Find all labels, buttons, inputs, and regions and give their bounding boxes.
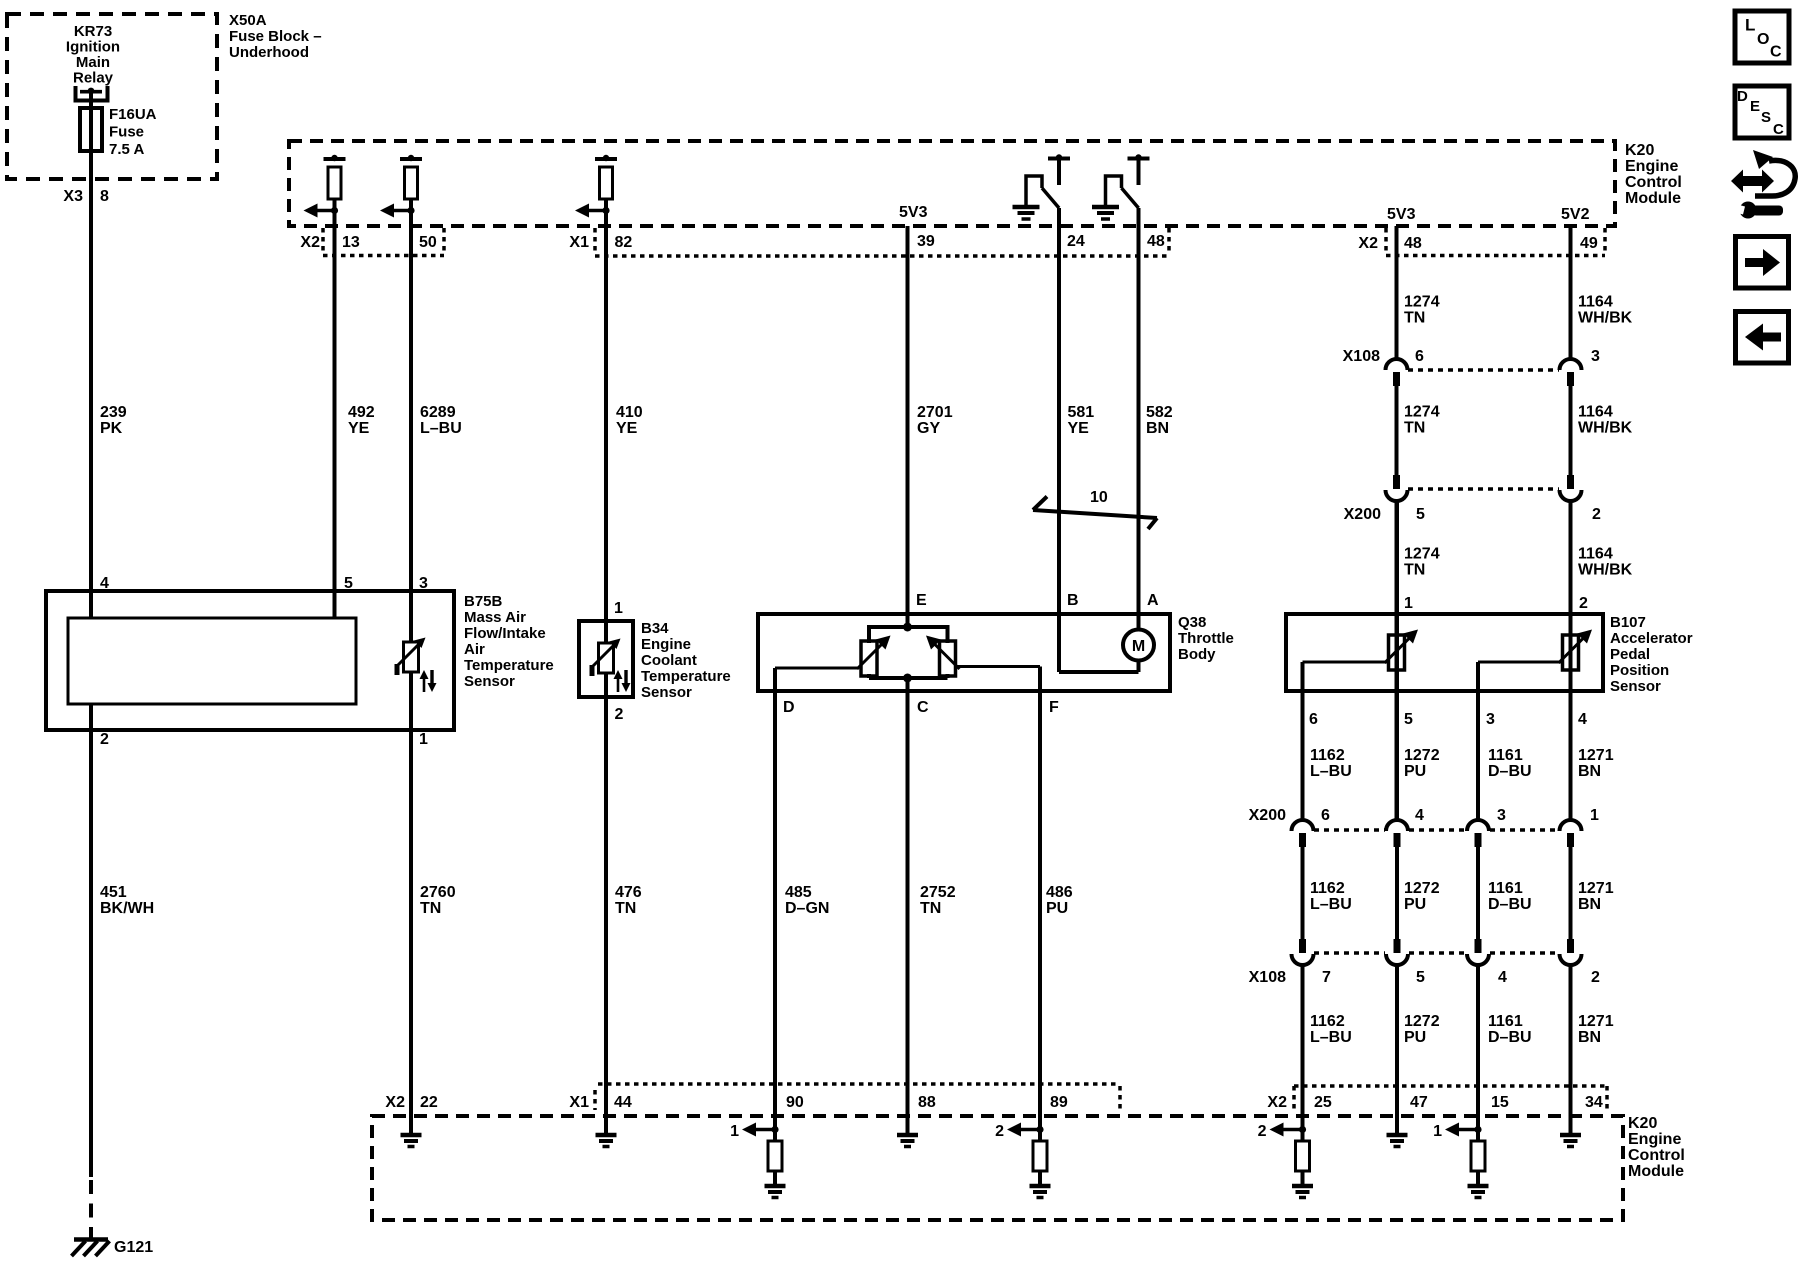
- wire B107 to X200 (1162 L-BU): [1301, 662, 1305, 820]
- svg-text:K20: K20: [1628, 1115, 1657, 1132]
- svg-text:6: 6: [1321, 807, 1330, 824]
- wire ECM pin 39 to throttle pin E (circuit 2701 GY): [906, 226, 910, 627]
- svg-text:Engine: Engine: [1625, 158, 1678, 175]
- connector X200 female half lower x=1570.5: [1560, 820, 1582, 831]
- connector X108 female half on wire x=1570.5: [1560, 359, 1582, 370]
- svg-text:2701: 2701: [917, 404, 953, 421]
- wire X200 to APP sensor (5V3/1274 TN): [1395, 501, 1399, 820]
- transistor low-side driver at ECM pin 48: [1128, 157, 1150, 161]
- wire KR73 relay to fuse to MAF pin 4 (circuit 239 PK): [89, 89, 93, 618]
- svg-text:S: S: [1761, 109, 1771, 126]
- wire ECM to X108 (5V3/1274 TN): [1395, 226, 1399, 358]
- sensor B75B inner element box: [68, 618, 356, 704]
- svg-text:1162: 1162: [1310, 880, 1345, 897]
- svg-text:TN: TN: [1404, 562, 1425, 579]
- wire X200 to X108 (1161 D-BU): [1476, 847, 1480, 940]
- svg-text:1: 1: [730, 1123, 739, 1140]
- svg-text:1164: 1164: [1578, 404, 1613, 421]
- svg-text:1274: 1274: [1404, 404, 1440, 421]
- ground G121 chassis symbol: [74, 1237, 108, 1242]
- svg-text:Body: Body: [1178, 646, 1216, 663]
- wire X108 to ECM (1162 L-BU): [1301, 965, 1305, 1141]
- svg-text:5: 5: [344, 575, 353, 592]
- svg-text:2760: 2760: [420, 884, 456, 901]
- svg-text:3: 3: [1497, 807, 1506, 824]
- svg-text:7.5 A: 7.5 A: [109, 141, 144, 158]
- connector X200 female half on wire x=1396.5: [1386, 490, 1408, 501]
- svg-text:48: 48: [1404, 235, 1422, 252]
- svg-text:Underhood: Underhood: [229, 44, 309, 61]
- svg-text:YE: YE: [616, 420, 638, 437]
- svg-text:3: 3: [419, 575, 428, 592]
- resistor pull-up at ECM pin 82: [595, 157, 617, 161]
- wire ECM pin 48 to throttle pin A (circuit 582 BN): [1137, 208, 1141, 630]
- svg-text:X200: X200: [1249, 807, 1286, 824]
- svg-text:8: 8: [100, 188, 109, 205]
- svg-text:10: 10: [1090, 489, 1108, 506]
- svg-text:L–BU: L–BU: [1310, 896, 1352, 913]
- svg-text:D–GN: D–GN: [785, 900, 829, 917]
- wire B75B pin 1 to ECM pin 22 (circuit 2760 TN): [409, 672, 413, 1133]
- svg-text:1272: 1272: [1404, 880, 1440, 897]
- svg-text:1164: 1164: [1578, 546, 1613, 563]
- svg-text:47: 47: [1410, 1094, 1428, 1111]
- svg-text:E: E: [916, 592, 927, 609]
- wire TPS2 wiper to pin F: [957, 665, 1040, 668]
- svg-text:D–BU: D–BU: [1488, 896, 1532, 913]
- svg-text:6: 6: [1415, 348, 1424, 365]
- ground at ECM pin 34: [1560, 1133, 1581, 1138]
- svg-text:34: 34: [1585, 1094, 1603, 1111]
- svg-text:22: 22: [420, 1094, 438, 1111]
- temperature arrows inside B75B: [423, 677, 426, 692]
- svg-text:Control: Control: [1628, 1147, 1685, 1164]
- svg-text:6289: 6289: [420, 404, 456, 421]
- svg-text:48: 48: [1147, 233, 1165, 250]
- connector X108 male pin on wire x=1570.5: [1567, 372, 1574, 386]
- wire B107 to X200 (1161 D-BU): [1476, 662, 1480, 820]
- ground at ECM pin 88: [897, 1133, 918, 1138]
- wire B34 pin 2 to ECM pin 44 (circuit 476 TN): [604, 672, 608, 1133]
- svg-text:O: O: [1757, 31, 1769, 48]
- connector X200 male pin lower x=1302.5: [1299, 833, 1306, 847]
- connector X200 dashed link row 2: [1314, 828, 1385, 832]
- svg-text:581: 581: [1068, 404, 1095, 421]
- svg-text:2752: 2752: [920, 884, 956, 901]
- svg-text:E: E: [1750, 98, 1760, 115]
- svg-text:Position: Position: [1610, 662, 1669, 679]
- svg-text:476: 476: [615, 884, 642, 901]
- wire ECM pin 13 to MAF pin 5 (circuit 492 YE): [333, 199, 337, 618]
- connector X1 box at ECM (pins 82, 39, 24, 48): [593, 228, 597, 252]
- svg-text:BN: BN: [1146, 420, 1169, 437]
- svg-text:Temperature: Temperature: [464, 657, 554, 674]
- svg-text:90: 90: [786, 1094, 804, 1111]
- svg-text:582: 582: [1146, 404, 1173, 421]
- svg-text:D: D: [783, 699, 795, 716]
- svg-text:Engine: Engine: [1628, 1131, 1681, 1148]
- svg-text:1271: 1271: [1578, 880, 1614, 897]
- svg-text:1274: 1274: [1404, 294, 1440, 311]
- connector X108 female half lower x=1570.5: [1560, 954, 1582, 965]
- svg-text:BK/WH: BK/WH: [100, 900, 154, 917]
- svg-text:4: 4: [100, 575, 109, 592]
- svg-text:4: 4: [1578, 711, 1587, 728]
- resistor and ground at ECM pin 25 (node 2): [1299, 1126, 1306, 1133]
- svg-text:5: 5: [1416, 506, 1425, 523]
- svg-text:Sensor: Sensor: [464, 673, 515, 690]
- svg-text:13: 13: [342, 234, 360, 251]
- svg-text:X108: X108: [1343, 348, 1380, 365]
- svg-text:X108: X108: [1249, 969, 1286, 986]
- svg-text:2: 2: [1258, 1123, 1267, 1140]
- svg-text:486: 486: [1046, 884, 1073, 901]
- svg-text:Main: Main: [76, 54, 110, 71]
- connector X200 female half lower x=1478: [1467, 820, 1489, 831]
- icon DESC box: [1735, 86, 1789, 138]
- wire ECM pin 82 to ECT pin 1 (circuit 410 YE): [604, 199, 608, 643]
- wire ECM pin 24 to throttle pin B (circuit 581 YE): [1057, 208, 1061, 672]
- svg-text:X3: X3: [63, 188, 83, 205]
- svg-text:Air: Air: [464, 641, 485, 658]
- connector X108 male pin lower x=1478: [1475, 939, 1482, 953]
- ECM K20 bottom dashed box: [372, 1116, 1623, 1220]
- temperature arrows inside B34: [617, 677, 620, 692]
- svg-text:M: M: [1132, 638, 1145, 655]
- sensor B34 box: [579, 621, 633, 697]
- connector X108 male pin lower x=1397: [1394, 939, 1401, 953]
- wire B107 to X200 (1271 BN): [1569, 501, 1573, 820]
- potentiometer TPS2: [940, 641, 956, 676]
- svg-text:X2: X2: [1358, 235, 1378, 252]
- svg-text:2: 2: [1592, 506, 1601, 523]
- wire TPS2 top stub: [946, 625, 950, 643]
- connector X200 dashed link row 1: [1408, 487, 1559, 491]
- icon prev-page arrow box: [1736, 312, 1789, 364]
- svg-text:X2: X2: [300, 234, 320, 251]
- svg-text:TN: TN: [420, 900, 441, 917]
- svg-text:88: 88: [918, 1094, 936, 1111]
- sensor B75B outer box: [46, 591, 454, 730]
- connector X108 dashed link row 2: [1314, 951, 1385, 955]
- svg-text:1164: 1164: [1578, 294, 1613, 311]
- svg-text:G121: G121: [114, 1239, 153, 1256]
- svg-text:5: 5: [1404, 711, 1413, 728]
- svg-text:WH/BK: WH/BK: [1578, 310, 1633, 327]
- svg-text:15: 15: [1491, 1094, 1509, 1111]
- svg-text:TN: TN: [615, 900, 636, 917]
- svg-text:49: 49: [1580, 235, 1598, 252]
- svg-text:B: B: [1067, 592, 1079, 609]
- connector X2 box at ECM right (pins 48, 49): [1384, 228, 1388, 252]
- wire X200 to X108 (1272 PU): [1395, 847, 1399, 940]
- svg-text:F: F: [1049, 699, 1059, 716]
- svg-text:Module: Module: [1625, 190, 1681, 207]
- svg-text:X1: X1: [569, 234, 589, 251]
- fuse F16UA symbol: [80, 108, 102, 151]
- connector X108 female half lower x=1478: [1467, 954, 1489, 965]
- svg-text:239: 239: [100, 404, 127, 421]
- svg-text:Ignition: Ignition: [66, 39, 120, 56]
- svg-text:25: 25: [1314, 1094, 1332, 1111]
- svg-text:50: 50: [419, 234, 437, 251]
- svg-text:C: C: [1770, 44, 1782, 61]
- svg-text:WH/BK: WH/BK: [1578, 420, 1633, 437]
- wire X108 to X200 (5V2/1164 WH/BK): [1569, 386, 1573, 476]
- svg-text:B107: B107: [1610, 614, 1646, 631]
- svg-text:2: 2: [100, 731, 109, 748]
- svg-text:3: 3: [1591, 348, 1600, 365]
- svg-text:2: 2: [1591, 969, 1600, 986]
- ECM K20 top dashed box: [289, 141, 1615, 226]
- svg-text:PU: PU: [1404, 896, 1426, 913]
- wire MAF pin 2 to G121 (circuit 451 BK/WH): [89, 704, 93, 1177]
- svg-text:L–BU: L–BU: [1310, 763, 1352, 780]
- svg-text:D–BU: D–BU: [1488, 763, 1532, 780]
- svg-text:F16UA: F16UA: [109, 106, 157, 123]
- connector X108 female half on wire x=1396.5: [1386, 359, 1408, 370]
- svg-text:L–BU: L–BU: [1310, 1029, 1352, 1046]
- svg-text:BN: BN: [1578, 763, 1601, 780]
- svg-text:B75B: B75B: [464, 593, 503, 610]
- svg-text:1: 1: [1590, 807, 1599, 824]
- node TPS return bus: [869, 676, 948, 680]
- fuse block X50A dashed box: [7, 14, 217, 179]
- connector X108 male pin on wire x=1396.5: [1393, 372, 1400, 386]
- connector X200 male pin lower x=1478: [1475, 833, 1482, 847]
- svg-text:451: 451: [100, 884, 127, 901]
- svg-text:3: 3: [1486, 711, 1495, 728]
- svg-text:Mass Air: Mass Air: [464, 609, 526, 626]
- thermistor inside B34: [599, 643, 614, 673]
- svg-text:1161: 1161: [1488, 880, 1523, 897]
- svg-text:1: 1: [1404, 595, 1413, 612]
- wire B107 to X200 (1272 PU): [1395, 501, 1399, 820]
- connector X108 female half lower x=1302.5: [1292, 954, 1314, 965]
- wire ECM pin 50 to MAF pin 3 (circuit 6289 L-BU): [409, 199, 413, 642]
- svg-text:1271: 1271: [1578, 747, 1614, 764]
- svg-text:L: L: [1745, 16, 1755, 35]
- wire X108 to X200 (5V3/1274 TN): [1395, 386, 1399, 476]
- potentiometer TPS1: [861, 641, 877, 676]
- potentiometer APP1: [1389, 635, 1405, 670]
- relay KR73 contact symbol: [76, 86, 108, 101]
- connector X200 male pin on wire x=1396.5: [1393, 475, 1400, 489]
- wire X200 to APP sensor (5V2/1164 WH/BK): [1569, 501, 1573, 820]
- svg-text:24: 24: [1067, 233, 1085, 250]
- svg-text:1: 1: [419, 731, 428, 748]
- connector X108 male pin lower x=1302.5: [1299, 939, 1306, 953]
- svg-text:82: 82: [615, 234, 633, 251]
- connector X200 female half on wire x=1570.5: [1560, 490, 1582, 501]
- wire throttle pin D to ECM pin 90 (circuit 485 D-GN): [773, 668, 777, 1141]
- svg-text:1272: 1272: [1404, 1013, 1440, 1030]
- svg-text:4: 4: [1498, 969, 1507, 986]
- connector X200 male pin lower x=1570.5: [1567, 833, 1574, 847]
- svg-text:TN: TN: [920, 900, 941, 917]
- svg-text:1162: 1162: [1310, 747, 1345, 764]
- svg-text:X200: X200: [1344, 506, 1381, 523]
- throttle body Q38 box: [758, 614, 1170, 691]
- svg-text:GY: GY: [917, 420, 940, 437]
- resistor pull-up at ECM pin 50: [400, 157, 422, 161]
- wire TPS1 wiper to pin D: [775, 667, 858, 670]
- svg-text:89: 89: [1050, 1094, 1068, 1111]
- connector X200 female half lower x=1397: [1386, 820, 1408, 831]
- svg-text:Module: Module: [1628, 1163, 1684, 1180]
- wire APP2 wiper to pin 3: [1478, 661, 1564, 664]
- svg-text:A: A: [1147, 592, 1159, 609]
- wire throttle pin F to ECM pin 89 (circuit 486 PU): [1038, 667, 1042, 1142]
- svg-text:1: 1: [614, 600, 623, 617]
- icon LOC box: [1735, 11, 1789, 63]
- connector X1 box bottom (pins 44, 90, 88, 89): [598, 1082, 1120, 1086]
- ground at ECM pin 47: [1387, 1133, 1408, 1138]
- svg-text:D–BU: D–BU: [1488, 1029, 1532, 1046]
- svg-text:5: 5: [1416, 969, 1425, 986]
- svg-text:5V2: 5V2: [1561, 206, 1590, 223]
- resistor pull-up at ECM pin 13: [324, 157, 346, 161]
- svg-text:Accelerator: Accelerator: [1610, 630, 1693, 647]
- wire throttle motor pin B link: [1059, 670, 1139, 674]
- icon next-page arrow box: [1736, 237, 1789, 289]
- resistor and ground at ECM pin 89 (node 2): [1036, 1126, 1043, 1133]
- svg-text:BN: BN: [1578, 896, 1601, 913]
- svg-text:1161: 1161: [1488, 1013, 1523, 1030]
- svg-text:K20: K20: [1625, 142, 1654, 159]
- wire X200 to X108 (1162 L-BU): [1301, 847, 1305, 940]
- svg-text:7: 7: [1322, 969, 1331, 986]
- icon wrench and arrows: [1731, 170, 1774, 193]
- svg-text:X2: X2: [1267, 1094, 1287, 1111]
- connector X200 male pin lower x=1397: [1394, 833, 1401, 847]
- thermistor IAT inside B75B: [404, 642, 419, 672]
- svg-text:Sensor: Sensor: [1610, 678, 1661, 695]
- svg-text:X50A: X50A: [229, 12, 267, 29]
- svg-text:PU: PU: [1046, 900, 1068, 917]
- motor M throttle actuator: [1123, 630, 1154, 661]
- svg-text:Sensor: Sensor: [641, 684, 692, 701]
- svg-text:C: C: [1773, 121, 1784, 138]
- svg-text:WH/BK: WH/BK: [1578, 562, 1633, 579]
- svg-text:TN: TN: [1404, 420, 1425, 437]
- connector X200 female half lower x=1302.5: [1292, 820, 1314, 831]
- potentiometer APP2: [1563, 635, 1579, 670]
- svg-text:Throttle: Throttle: [1178, 630, 1234, 647]
- svg-text:BN: BN: [1578, 1029, 1601, 1046]
- svg-text:410: 410: [616, 404, 643, 421]
- svg-text:6: 6: [1309, 711, 1318, 728]
- resistor and ground at ECM pin 90 (node 1): [771, 1126, 778, 1133]
- svg-text:2: 2: [1579, 595, 1588, 612]
- svg-text:C: C: [917, 699, 929, 716]
- connector X108 male pin lower x=1570.5: [1567, 939, 1574, 953]
- svg-text:D: D: [1737, 88, 1748, 105]
- svg-text:5V3: 5V3: [899, 204, 928, 221]
- svg-text:B34: B34: [641, 620, 669, 637]
- transistor low-side driver at ECM pin 24: [1048, 157, 1070, 161]
- svg-text:Q38: Q38: [1178, 614, 1206, 631]
- svg-text:2: 2: [995, 1123, 1004, 1140]
- wire X108 to ECM (1271 BN): [1569, 965, 1573, 1133]
- svg-text:1161: 1161: [1488, 747, 1523, 764]
- svg-text:1272: 1272: [1404, 747, 1440, 764]
- svg-text:PU: PU: [1404, 763, 1426, 780]
- sensor B107 box: [1286, 614, 1603, 691]
- wire X108 to ECM (1272 PU): [1395, 965, 1399, 1133]
- svg-text:Coolant: Coolant: [641, 652, 697, 669]
- connector X108 female half lower x=1397: [1386, 954, 1408, 965]
- connector X2 box at ECM (pins 13, 50): [321, 228, 325, 252]
- svg-text:Flow/Intake: Flow/Intake: [464, 625, 546, 642]
- svg-text:492: 492: [348, 404, 375, 421]
- wire X108 to ECM (1161 D-BU): [1476, 965, 1480, 1141]
- wire TPS1 top stub: [867, 625, 871, 643]
- svg-text:1274: 1274: [1404, 546, 1440, 563]
- svg-text:Fuse: Fuse: [109, 124, 144, 141]
- svg-text:4: 4: [1415, 807, 1424, 824]
- svg-text:Pedal: Pedal: [1610, 646, 1650, 663]
- svg-text:Control: Control: [1625, 174, 1682, 191]
- svg-text:1: 1: [1433, 1123, 1442, 1140]
- wire throttle pin C to ECM pin 88 (circuit 2752 TN): [906, 678, 910, 1133]
- svg-text:YE: YE: [1068, 420, 1090, 437]
- svg-text:1162: 1162: [1310, 1013, 1345, 1030]
- svg-text:Temperature: Temperature: [641, 668, 731, 685]
- connector X108 dashed link row 1: [1408, 368, 1559, 372]
- svg-text:Fuse Block –: Fuse Block –: [229, 28, 322, 45]
- svg-text:485: 485: [785, 884, 812, 901]
- svg-text:PK: PK: [100, 420, 123, 437]
- svg-text:1271: 1271: [1578, 1013, 1614, 1030]
- ground at ECM pin 22: [401, 1133, 422, 1138]
- ground at ECM pin 44: [596, 1133, 617, 1138]
- svg-text:PU: PU: [1404, 1029, 1426, 1046]
- resistor and ground at ECM pin 15 (node 1): [1474, 1126, 1481, 1133]
- svg-text:39: 39: [917, 233, 935, 250]
- svg-text:X1: X1: [569, 1094, 589, 1111]
- svg-text:2: 2: [615, 706, 624, 723]
- svg-text:X2: X2: [385, 1094, 405, 1111]
- svg-text:KR73: KR73: [74, 23, 112, 40]
- wire ECM to X108 (5V2/1164 WH/BK): [1569, 226, 1573, 358]
- svg-text:5V3: 5V3: [1387, 206, 1416, 223]
- twisted pair marker circuit 10: [1033, 510, 1157, 518]
- svg-text:TN: TN: [1404, 310, 1425, 327]
- connector X200 male pin on wire x=1570.5: [1567, 475, 1574, 489]
- svg-text:L–BU: L–BU: [420, 420, 462, 437]
- svg-text:Relay: Relay: [73, 70, 114, 87]
- node TPS supply bus: [869, 625, 948, 629]
- wire APP1 wiper to pin 6: [1303, 661, 1391, 664]
- svg-text:YE: YE: [348, 420, 370, 437]
- svg-text:Engine: Engine: [641, 636, 691, 653]
- wire X200 to X108 (1271 BN): [1569, 847, 1573, 940]
- connector X2 box bottom (pins 25, 47, 15, 34): [1294, 1084, 1607, 1088]
- svg-text:44: 44: [614, 1094, 632, 1111]
